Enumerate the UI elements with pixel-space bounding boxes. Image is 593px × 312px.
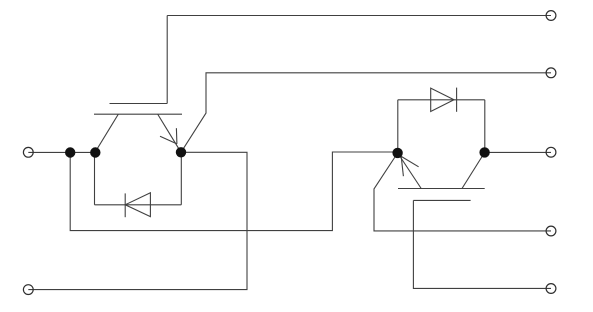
- junction node collector2: [392, 148, 402, 158]
- wire emitter1 to bottom-left terminal: [28, 152, 247, 289]
- wire link C1 node to midpoint node: [70, 152, 397, 231]
- junction node emitter2: [479, 147, 489, 157]
- junction node on bus (link): [65, 147, 75, 157]
- terminal E1-aux2 (left bottom): [23, 285, 33, 295]
- diode D1 (lower freewheel, pointing left): [95, 152, 182, 217]
- diode D2 (upper freewheel, pointing right): [398, 88, 485, 153]
- wire gate1 riser: [166, 16, 168, 104]
- wire output node to terminal: [485, 151, 551, 153]
- wire input bus C1: [28, 151, 95, 153]
- junction node emitter1: [176, 147, 186, 157]
- transistor Q1 (upper IGBT): [94, 104, 182, 153]
- wire E1-aux riser and rail to terminal: [181, 73, 551, 153]
- wire top rail G1 to terminal: [167, 15, 551, 17]
- terminal C1 (left mid): [23, 147, 33, 157]
- terminal E2-aux (right 4th): [546, 226, 556, 236]
- terminal E1-aux (right 2nd): [546, 68, 556, 78]
- terminal G1 (right top): [546, 11, 556, 21]
- transistor Q2 (lower IGBT, inverted): [398, 153, 485, 201]
- terminal output (right mid): [546, 147, 556, 157]
- wire gate2 drop and rail to terminal: [413, 200, 551, 288]
- junction node on bus (collector): [90, 147, 100, 157]
- terminal G2 (right bottom): [546, 284, 556, 294]
- wire E2-aux to terminal: [374, 153, 551, 231]
